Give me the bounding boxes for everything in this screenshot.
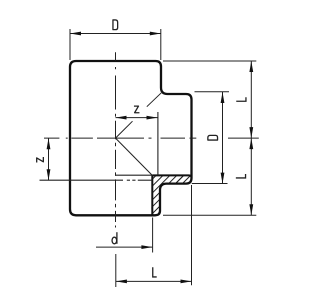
arrow L right mid down <box>249 127 253 138</box>
socket bore wall edge <box>151 175 153 214</box>
label z top <box>135 106 139 113</box>
section hatching <box>132 150 210 220</box>
arrows <box>47 32 254 284</box>
label D top <box>113 20 118 30</box>
arrow z top right <box>147 116 158 120</box>
dimension D top line <box>70 33 161 35</box>
ext right of top D <box>160 29 162 60</box>
dimension L bottom line <box>116 280 192 282</box>
arrow z left down <box>47 169 51 180</box>
ext branch top <box>195 91 230 93</box>
body outline <box>70 61 192 215</box>
dimension d line <box>96 246 152 248</box>
dimension z left line <box>48 138 50 180</box>
dimension L right line <box>250 61 252 215</box>
arrow D top right <box>150 32 161 36</box>
branch shoulder line <box>157 112 159 175</box>
label L right bottom rotated <box>236 174 246 178</box>
arrow D right down <box>221 173 225 184</box>
arrow L bottom left <box>116 280 127 284</box>
label d bottom <box>112 232 117 244</box>
dimension D right line <box>222 92 224 184</box>
branch bore edge <box>152 175 191 177</box>
arrow z left up <box>47 138 51 149</box>
arrow D top left <box>70 32 81 36</box>
ext top face right <box>163 60 256 62</box>
ext bottom L right <box>191 185 193 285</box>
arrow z top left <box>116 116 127 120</box>
extension lines <box>70 29 256 285</box>
arrow L right bottom down <box>249 204 253 215</box>
ext bottom face right <box>163 214 256 216</box>
branch bore line to axis <box>116 174 153 176</box>
arrow L right mid up <box>249 138 253 149</box>
label D right rotated <box>208 135 218 140</box>
section break diagonal upper <box>116 121 133 138</box>
label L right top rotated <box>236 97 246 101</box>
arrow L right top up <box>249 61 253 72</box>
bottom shoulder line <box>40 179 153 181</box>
label L bottom <box>153 267 157 277</box>
section break diagonal lower <box>116 138 153 175</box>
arrow d right <box>141 245 152 249</box>
fillet diagonal <box>147 93 162 107</box>
label z left rotated <box>37 158 44 162</box>
dimension z top line <box>116 117 158 119</box>
arrow L bottom right <box>181 280 192 284</box>
ext d right <box>152 218 154 253</box>
ext branch bottom <box>192 183 228 185</box>
arrow D right up <box>221 92 225 103</box>
horizontal centerline <box>44 137 259 139</box>
ext left of top D <box>69 29 71 60</box>
vertical centerline <box>115 52 117 287</box>
